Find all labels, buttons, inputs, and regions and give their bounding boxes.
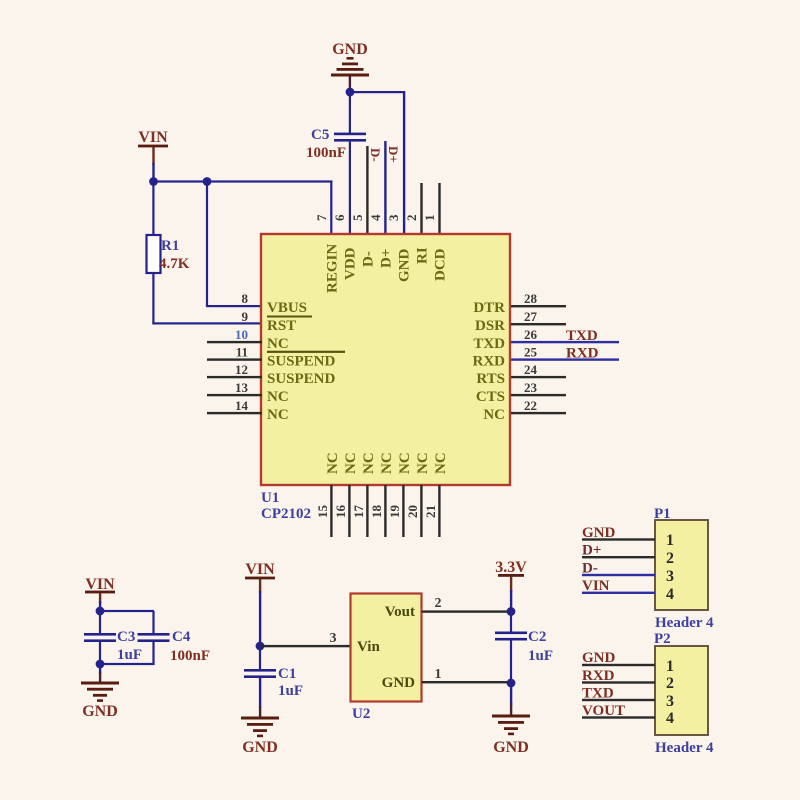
svg-text:C2: C2 bbox=[528, 629, 546, 645]
wire C2 bottom to lower junction bbox=[510, 641, 512, 684]
wire C1 bottom to ground bbox=[259, 678, 261, 708]
svg-text:12: 12 bbox=[235, 362, 248, 377]
svg-text:24: 24 bbox=[524, 362, 538, 377]
svg-text:NC: NC bbox=[325, 452, 341, 474]
op-amp U1 body bbox=[261, 234, 510, 485]
svg-text:C4: C4 bbox=[172, 629, 191, 645]
svg-text:2: 2 bbox=[404, 215, 419, 222]
svg-text:10: 10 bbox=[235, 327, 248, 342]
svg-text:P2: P2 bbox=[654, 631, 671, 647]
wire junction to ground bbox=[99, 664, 101, 674]
svg-text:TXD: TXD bbox=[473, 336, 505, 352]
wire VIN stub down bbox=[152, 147, 154, 165]
svg-text:NC: NC bbox=[361, 452, 377, 474]
resistor R1 bbox=[147, 235, 190, 273]
wire pin16 stub bbox=[348, 485, 350, 537]
svg-text:NC: NC bbox=[267, 336, 289, 352]
svg-text:REGIN: REGIN bbox=[325, 244, 341, 293]
wire to pin8 VBUS bbox=[206, 305, 262, 307]
svg-text:TXD: TXD bbox=[566, 328, 598, 344]
wire R1 bottom to pin9 row bbox=[152, 273, 154, 324]
svg-text:CP2102: CP2102 bbox=[261, 506, 311, 522]
wire pin25 RXD net bbox=[511, 358, 619, 360]
svg-text:11: 11 bbox=[236, 345, 248, 360]
svg-text:NC: NC bbox=[343, 452, 359, 474]
wire pin12 stub bbox=[207, 376, 262, 378]
svg-text:VIN: VIN bbox=[245, 561, 275, 578]
wire pin7 REGIN vertical bbox=[330, 181, 332, 235]
svg-text:1: 1 bbox=[422, 215, 437, 222]
svg-text:SUSPEND: SUSPEND bbox=[267, 371, 336, 387]
svg-text:CTS: CTS bbox=[476, 389, 505, 405]
svg-text:DSR: DSR bbox=[475, 318, 505, 334]
wire to pin9 RST bbox=[152, 322, 262, 324]
power VIN (middle) bbox=[245, 561, 275, 579]
svg-text:27: 27 bbox=[524, 309, 538, 324]
wire C4 bottom down bbox=[152, 642, 154, 665]
power VIN (bottom left) bbox=[85, 576, 115, 593]
svg-text:D-: D- bbox=[361, 251, 377, 267]
svg-text:RTS: RTS bbox=[476, 371, 505, 387]
svg-text:Header 4: Header 4 bbox=[655, 615, 714, 631]
svg-text:D-: D- bbox=[368, 148, 383, 162]
svg-text:VIN: VIN bbox=[85, 576, 115, 593]
wire C4 branch bottom horizontal bbox=[100, 663, 154, 665]
svg-text:NC: NC bbox=[415, 452, 431, 474]
svg-text:1: 1 bbox=[666, 532, 674, 549]
svg-text:1: 1 bbox=[435, 667, 442, 682]
svg-text:4: 4 bbox=[666, 710, 674, 727]
wire VIN horizontal to pin7 bbox=[154, 180, 333, 182]
wire P2 pin4 VOUT bbox=[582, 716, 655, 718]
node VIN/C1 junction bbox=[256, 642, 265, 651]
capacitor C1 bbox=[244, 666, 303, 699]
wire U2 pin2 Vout bbox=[422, 610, 512, 612]
svg-text:VIN: VIN bbox=[582, 578, 610, 594]
svg-text:VBUS: VBUS bbox=[267, 300, 307, 316]
svg-text:NC: NC bbox=[397, 452, 413, 474]
wire junction down to C1 bbox=[259, 646, 261, 670]
svg-text:RI: RI bbox=[415, 247, 431, 264]
svg-text:25: 25 bbox=[524, 345, 538, 360]
wire to U2 Vin pin3 bbox=[260, 645, 351, 647]
wire C5 to pin6 VDD bbox=[349, 142, 351, 235]
node junction at x207 bbox=[203, 177, 212, 186]
svg-text:GND: GND bbox=[582, 525, 616, 541]
wire P2 pin1 GND bbox=[582, 664, 655, 666]
power VIN (top left) bbox=[138, 129, 168, 147]
wire pin5 D- stub bbox=[366, 146, 368, 235]
regulator U2 body bbox=[351, 594, 422, 702]
svg-text:NC: NC bbox=[267, 407, 289, 423]
svg-text:GND: GND bbox=[382, 675, 416, 691]
wire junction down to pin8 row bbox=[206, 182, 208, 307]
svg-text:SUSPEND: SUSPEND bbox=[267, 354, 336, 370]
wire VIN stub bbox=[99, 593, 101, 603]
svg-text:RST: RST bbox=[267, 318, 296, 334]
wire C4 branch down bbox=[152, 611, 154, 634]
svg-text:28: 28 bbox=[524, 291, 538, 306]
svg-text:2: 2 bbox=[666, 675, 674, 692]
svg-text:2: 2 bbox=[666, 550, 674, 567]
svg-text:8: 8 bbox=[242, 291, 249, 306]
wire P1 pin1 GND bbox=[582, 538, 655, 540]
wire P2 pin2 RXD bbox=[582, 681, 655, 683]
capacitor C3 bbox=[84, 629, 142, 663]
svg-text:17: 17 bbox=[351, 505, 366, 519]
svg-text:D-: D- bbox=[582, 561, 598, 577]
wire pin14 stub bbox=[207, 412, 262, 414]
svg-text:20: 20 bbox=[405, 505, 420, 518]
wire pin22 stub bbox=[511, 412, 566, 414]
wire pin23 stub bbox=[511, 394, 566, 396]
wire pin20 stub bbox=[420, 485, 422, 537]
svg-text:16: 16 bbox=[333, 505, 348, 519]
wire pin27 stub bbox=[511, 323, 566, 325]
wire VIN junction down to C3 bbox=[99, 611, 101, 634]
node VIN junction bbox=[96, 607, 105, 616]
wire VIN junction down to R1 bbox=[152, 182, 154, 236]
svg-text:3: 3 bbox=[666, 693, 674, 710]
svg-text:26: 26 bbox=[524, 327, 538, 342]
wire junction to C4 branch bbox=[100, 610, 154, 612]
svg-text:C3: C3 bbox=[117, 629, 135, 645]
wire pin21 stub bbox=[438, 485, 440, 537]
svg-text:NC: NC bbox=[267, 389, 289, 405]
svg-text:GND: GND bbox=[493, 739, 529, 756]
svg-text:22: 22 bbox=[524, 398, 537, 413]
wire junction to ground bbox=[510, 683, 512, 705]
wire GND junction to pin3 horizontal bbox=[350, 91, 404, 93]
wire P1 pin3 D- bbox=[582, 574, 655, 576]
wire pin26 TXD net bbox=[511, 341, 619, 343]
wire pin4 D+ stub bbox=[384, 141, 386, 235]
svg-text:NC: NC bbox=[483, 407, 505, 423]
connector P1 body bbox=[655, 520, 708, 610]
svg-text:18: 18 bbox=[369, 505, 384, 519]
wire pin2 RI stub bbox=[420, 183, 422, 235]
svg-text:VOUT: VOUT bbox=[582, 703, 625, 719]
wire P2 pin3 TXD bbox=[582, 699, 655, 701]
wire junction down to C5 bbox=[349, 92, 351, 133]
node 3.3V junction bbox=[507, 607, 516, 616]
svg-text:TXD: TXD bbox=[582, 686, 614, 702]
wire junction down to C2 bbox=[510, 612, 512, 633]
svg-text:RXD: RXD bbox=[582, 668, 615, 684]
wire pin3 GND vertical bbox=[403, 91, 405, 235]
svg-text:15: 15 bbox=[315, 505, 330, 519]
svg-text:1uF: 1uF bbox=[117, 647, 142, 663]
wire 3.3V stub down bbox=[510, 576, 512, 592]
capacitor C2 bbox=[495, 629, 553, 664]
svg-text:C5: C5 bbox=[311, 127, 329, 143]
svg-text:GND: GND bbox=[332, 41, 368, 58]
svg-text:1uF: 1uF bbox=[278, 683, 303, 699]
node lower junction bbox=[96, 660, 105, 669]
svg-text:DCD: DCD bbox=[433, 248, 449, 281]
svg-text:7: 7 bbox=[314, 214, 329, 221]
svg-text:3: 3 bbox=[386, 214, 401, 221]
svg-text:Header 4: Header 4 bbox=[655, 740, 714, 756]
svg-text:6: 6 bbox=[332, 214, 347, 221]
wire pin15 stub bbox=[330, 485, 332, 537]
wire P1 pin2 D+ bbox=[582, 556, 655, 558]
svg-text:U1: U1 bbox=[261, 490, 279, 506]
svg-text:100nF: 100nF bbox=[170, 648, 210, 664]
ground (under C2) bbox=[492, 715, 530, 757]
wire pin1 DCD stub bbox=[438, 183, 440, 235]
svg-text:13: 13 bbox=[235, 380, 249, 395]
svg-text:DTR: DTR bbox=[473, 300, 505, 316]
svg-text:GND: GND bbox=[397, 249, 413, 283]
node GND junction bbox=[346, 88, 355, 97]
wire pin18 stub bbox=[384, 485, 386, 537]
svg-text:Vin: Vin bbox=[357, 639, 380, 655]
wire pin11 stub bbox=[207, 358, 262, 360]
svg-text:NC: NC bbox=[379, 452, 395, 474]
svg-text:GND: GND bbox=[242, 739, 278, 756]
wire pin19 stub bbox=[402, 485, 404, 537]
wire U2 pin1 GND bbox=[422, 681, 512, 683]
svg-text:2: 2 bbox=[435, 596, 442, 611]
wire pin13 stub bbox=[207, 394, 262, 396]
svg-text:Vout: Vout bbox=[385, 604, 415, 620]
svg-text:3: 3 bbox=[666, 568, 674, 585]
svg-text:U2: U2 bbox=[352, 706, 370, 722]
svg-text:RXD: RXD bbox=[566, 346, 599, 362]
svg-text:3: 3 bbox=[330, 631, 337, 646]
overline RST bbox=[267, 316, 312, 318]
ground GND (top) bbox=[331, 41, 369, 77]
svg-text:19: 19 bbox=[387, 505, 402, 519]
connector P2 body bbox=[655, 646, 708, 735]
svg-text:100nF: 100nF bbox=[306, 145, 346, 161]
capacitor C5 bbox=[306, 127, 366, 161]
svg-text:4.7K: 4.7K bbox=[159, 256, 190, 272]
svg-text:VDD: VDD bbox=[343, 247, 359, 280]
svg-text:23: 23 bbox=[524, 380, 538, 395]
svg-text:1uF: 1uF bbox=[528, 648, 553, 664]
ground (under C1) bbox=[241, 717, 279, 757]
svg-text:5: 5 bbox=[350, 214, 365, 221]
svg-text:9: 9 bbox=[242, 309, 249, 324]
overline SUSPEND bbox=[267, 351, 345, 353]
svg-text:14: 14 bbox=[235, 398, 249, 413]
svg-text:D+: D+ bbox=[386, 146, 401, 163]
svg-text:4: 4 bbox=[666, 586, 674, 603]
capacitor C4 bbox=[138, 629, 211, 664]
svg-text:D+: D+ bbox=[582, 543, 601, 559]
svg-text:3.3V: 3.3V bbox=[495, 559, 527, 576]
wire VIN stub down bbox=[259, 579, 261, 593]
wire ground stub to junction bbox=[349, 76, 351, 92]
node C2 lower junction bbox=[507, 679, 516, 688]
svg-text:GND: GND bbox=[582, 650, 616, 666]
svg-text:1: 1 bbox=[666, 658, 674, 675]
power 3.3V bbox=[495, 559, 527, 577]
svg-text:RXD: RXD bbox=[473, 354, 506, 370]
svg-text:GND: GND bbox=[82, 703, 118, 720]
svg-text:C1: C1 bbox=[278, 666, 296, 682]
wire pin24 stub bbox=[511, 376, 566, 378]
wire pin17 stub bbox=[366, 485, 368, 537]
wire pin10 stub bbox=[207, 341, 262, 343]
svg-text:D+: D+ bbox=[379, 249, 395, 268]
svg-text:4: 4 bbox=[368, 214, 383, 221]
svg-text:VIN: VIN bbox=[138, 129, 168, 146]
svg-text:NC: NC bbox=[433, 452, 449, 474]
wire P1 pin4 VIN bbox=[582, 592, 655, 594]
svg-text:R1: R1 bbox=[161, 238, 179, 254]
ground (bottom left) bbox=[81, 682, 119, 721]
wire C3 bottom to lower junction bbox=[99, 642, 101, 666]
svg-text:21: 21 bbox=[423, 505, 438, 518]
wire pin28 stub bbox=[511, 305, 566, 307]
node VIN junction bbox=[149, 177, 158, 186]
